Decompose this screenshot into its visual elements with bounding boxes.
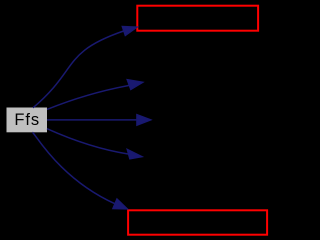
edge Ffs -> hidden node 4 bbox=[47, 129, 143, 159]
node Ffs bbox=[7, 108, 48, 133]
edge Ffs -> hidden node 2 bbox=[47, 79, 143, 109]
node bottom (red, truncated) bbox=[128, 210, 267, 234]
edge Ffs -> hidden node 3 (middle) bbox=[47, 114, 151, 125]
edge Ffs -> top node (curve) bbox=[33, 26, 138, 108]
svg-text:Ffs: Ffs bbox=[14, 111, 40, 129]
node top (red, truncated) bbox=[137, 6, 258, 31]
edge Ffs -> bottom node (curve) bbox=[33, 132, 128, 209]
